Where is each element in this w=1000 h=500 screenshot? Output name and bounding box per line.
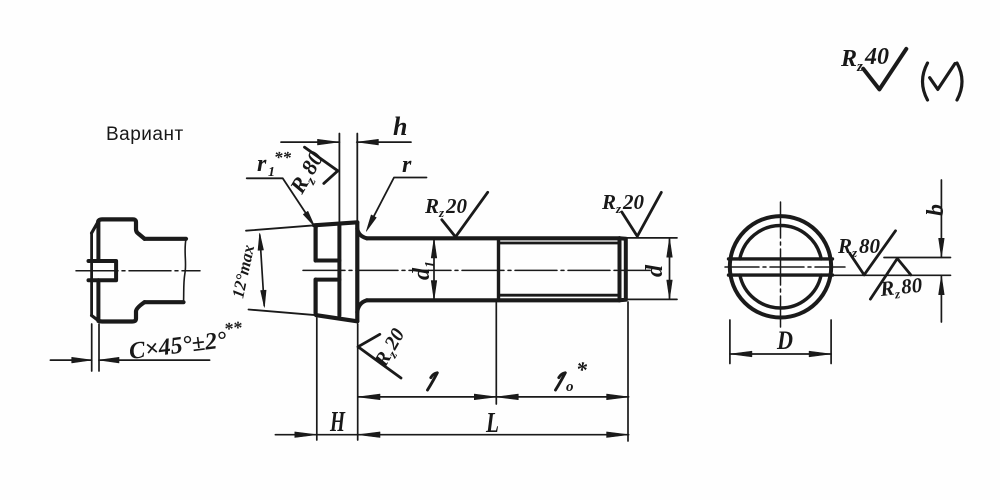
svg-text:20: 20 xyxy=(622,190,645,214)
end view outer circle xyxy=(730,216,831,317)
parenthesis right xyxy=(957,63,962,100)
svg-text:1: 1 xyxy=(268,165,275,180)
12deg max label xyxy=(228,243,258,300)
d dim extension top xyxy=(626,237,677,239)
svg-text:R: R xyxy=(837,234,852,258)
slot upper extension line right xyxy=(884,257,951,259)
H arrow outside left xyxy=(295,432,317,438)
d1 arrow up xyxy=(431,239,437,258)
main head left face lower xyxy=(314,280,319,316)
fillet head to shank bottom xyxy=(357,300,367,312)
h arrow left xyxy=(318,139,339,145)
variant head outline xyxy=(98,219,144,238)
svg-text:z: z xyxy=(438,205,445,220)
svg-text:*: * xyxy=(576,357,588,382)
end view slot lower line xyxy=(729,273,833,276)
svg-text:r: r xyxy=(402,152,412,178)
d label rotated xyxy=(642,264,668,277)
shank bottom edge xyxy=(367,298,620,302)
svg-text:1: 1 xyxy=(423,261,438,268)
h dim extension line (head face) xyxy=(356,134,358,223)
main head left face upper xyxy=(314,225,319,260)
main head cone projection line bottom xyxy=(249,310,317,316)
end chamfer line xyxy=(618,238,622,300)
svg-text:r: r xyxy=(257,151,267,177)
t arrow right at thread start xyxy=(474,394,496,400)
chamfer dim arrow left xyxy=(72,357,92,363)
12deg arrow up xyxy=(258,233,264,250)
thread minor diameter bottom xyxy=(499,294,620,297)
d dim extension bottom xyxy=(626,298,677,300)
svg-text:80: 80 xyxy=(900,273,924,299)
variant head chamfer edge line lower xyxy=(96,280,100,321)
L dim line xyxy=(275,434,628,436)
chamfer dim line right xyxy=(99,359,210,361)
extension line thread start down xyxy=(495,302,497,404)
svg-text:**: ** xyxy=(274,148,292,167)
variant head bottom chamfer xyxy=(92,316,99,321)
Rz80 roughness tick at slot bottom xyxy=(305,147,338,183)
D dim line xyxy=(730,353,831,355)
thread minor diameter top xyxy=(499,242,620,245)
Rz20 roughness under head (rotated) xyxy=(358,334,401,378)
12deg arrow down xyxy=(261,290,267,307)
t0 arrow left at thread start xyxy=(496,394,518,400)
h dim line right xyxy=(357,141,411,143)
chamfer dim extension lines xyxy=(91,324,93,371)
b dim line upper xyxy=(940,180,942,257)
D arrow left xyxy=(730,351,752,357)
svg-text:80: 80 xyxy=(296,147,329,179)
t0 arrow right at end xyxy=(607,394,629,400)
shank top edge xyxy=(367,236,620,240)
svg-text:R: R xyxy=(601,190,616,214)
d dim line xyxy=(669,239,671,300)
svg-text:**: ** xyxy=(223,317,244,339)
d arrow down xyxy=(667,280,673,299)
svg-text:R: R xyxy=(840,46,857,72)
variant shank top edge xyxy=(145,237,187,241)
12deg dim line xyxy=(260,235,264,306)
svg-text:R: R xyxy=(878,276,895,301)
Rz20 under head label xyxy=(370,325,411,373)
Rz20 shank label xyxy=(424,194,468,220)
main head cone projection line top xyxy=(246,225,316,231)
D dim extension lines xyxy=(730,320,831,364)
variant shank break line xyxy=(184,239,187,302)
svg-text:h: h xyxy=(393,112,407,141)
end view chamfer circle bottom arc xyxy=(740,275,821,308)
d1 label rotated xyxy=(409,261,438,280)
svg-text:40: 40 xyxy=(864,44,889,70)
L arrow left (shared with H) xyxy=(358,432,380,438)
chamfer dim arrow right xyxy=(99,357,119,363)
main view centerline xyxy=(303,269,650,271)
general roughness Rz40 xyxy=(840,44,889,75)
end view vertical centerline xyxy=(780,202,782,327)
main head right face / bearing face xyxy=(355,222,359,321)
b arrow up xyxy=(939,276,945,295)
Rz20 roughness at thread end xyxy=(622,192,662,236)
svg-text:z: z xyxy=(615,201,622,216)
variant head top chamfer xyxy=(92,222,99,234)
fillet head to shank top xyxy=(357,229,367,239)
main head bottom edge xyxy=(316,315,357,321)
b dim line lower xyxy=(940,276,942,322)
l0 label (script ell with subscript) xyxy=(556,373,566,390)
svg-text:12°max: 12°max xyxy=(228,243,258,300)
Rz80 rotated label xyxy=(284,147,332,200)
svg-text:o: o xyxy=(566,379,574,395)
variant view centerline xyxy=(76,270,200,272)
small tick in parens xyxy=(930,64,955,90)
variant shank bottom edge xyxy=(145,300,184,304)
d1 dim line xyxy=(433,240,435,299)
variant head lower outline xyxy=(98,302,144,321)
svg-text:z: z xyxy=(856,59,863,75)
main head slot notch top xyxy=(316,259,340,263)
slot lower extension line right xyxy=(833,274,951,276)
Rz40 tick xyxy=(863,49,906,90)
parenthesis left xyxy=(923,63,928,100)
svg-text:H: H xyxy=(329,407,346,438)
end view slot upper line xyxy=(729,257,833,260)
end view chamfer circle top arc xyxy=(740,226,821,259)
chamfer dim line left xyxy=(50,359,91,361)
end view horizontal centerline xyxy=(725,266,845,268)
Rz20 thread label xyxy=(601,190,645,216)
svg-text:z: z xyxy=(851,245,858,260)
end face xyxy=(620,238,626,300)
Rz80 slot upper label xyxy=(878,273,924,303)
r1 label xyxy=(257,148,292,180)
thread boundary line xyxy=(497,238,500,300)
b arrow down xyxy=(939,238,945,257)
extension line head left face down xyxy=(316,318,318,440)
svg-text:R: R xyxy=(284,172,313,198)
r leader xyxy=(369,178,427,226)
L arrow right xyxy=(607,432,629,438)
l label (script ell) xyxy=(428,373,438,390)
svg-text:D: D xyxy=(776,326,793,355)
svg-text:80: 80 xyxy=(859,234,881,258)
variant slot notch xyxy=(89,261,117,280)
svg-text:R: R xyxy=(424,194,439,218)
svg-text:20: 20 xyxy=(445,194,468,218)
extension line bearing face down xyxy=(357,324,359,440)
t dim line xyxy=(358,396,629,398)
h dim line left xyxy=(281,141,339,143)
Rz20 roughness on shank xyxy=(442,192,488,237)
svg-text:20: 20 xyxy=(380,325,410,354)
variant head face line xyxy=(90,233,93,316)
Rz80 roughness slot upper face (inverted tick) xyxy=(870,259,910,300)
main head top edge xyxy=(314,222,357,225)
extension line screw end down xyxy=(627,302,629,441)
h dim extension line (slot bottom) xyxy=(338,134,340,225)
r1 leader arrow xyxy=(303,211,315,227)
d arrow up xyxy=(667,238,673,257)
r1 leader xyxy=(247,178,311,221)
r leader arrow xyxy=(366,215,376,231)
Rz80 roughness slot lower face xyxy=(850,231,896,275)
main head slot notch bottom xyxy=(316,278,340,282)
t arrow left at bearing face xyxy=(358,394,380,400)
variant head chamfer edge line upper xyxy=(96,221,100,261)
main head slot bottom line xyxy=(337,224,341,316)
D arrow right xyxy=(809,351,831,357)
Rz80 slot lower label xyxy=(837,234,881,260)
h arrow right xyxy=(357,139,378,145)
d1 arrow down xyxy=(431,281,437,300)
svg-text:b: b xyxy=(923,204,949,216)
b label rotated xyxy=(923,204,949,216)
chamfer label C×45°±2°** xyxy=(127,317,246,365)
svg-text:Вариант: Вариант xyxy=(106,124,184,145)
svg-text:d: d xyxy=(642,264,668,277)
svg-text:L: L xyxy=(485,408,499,439)
